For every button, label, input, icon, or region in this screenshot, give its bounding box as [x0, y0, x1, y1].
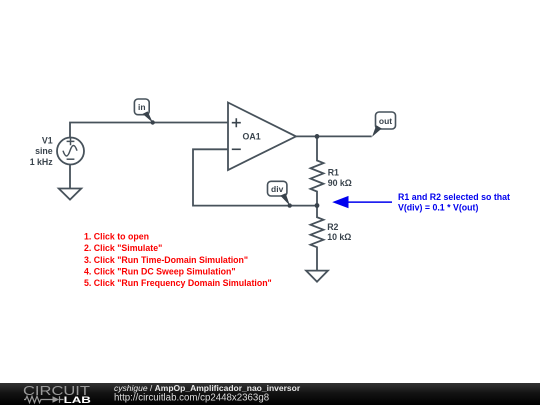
- svg-text:LAB: LAB: [64, 395, 91, 405]
- svg-text:http://circuitlab.com/cp2448x2: http://circuitlab.com/cp2448x2363g8: [114, 392, 269, 403]
